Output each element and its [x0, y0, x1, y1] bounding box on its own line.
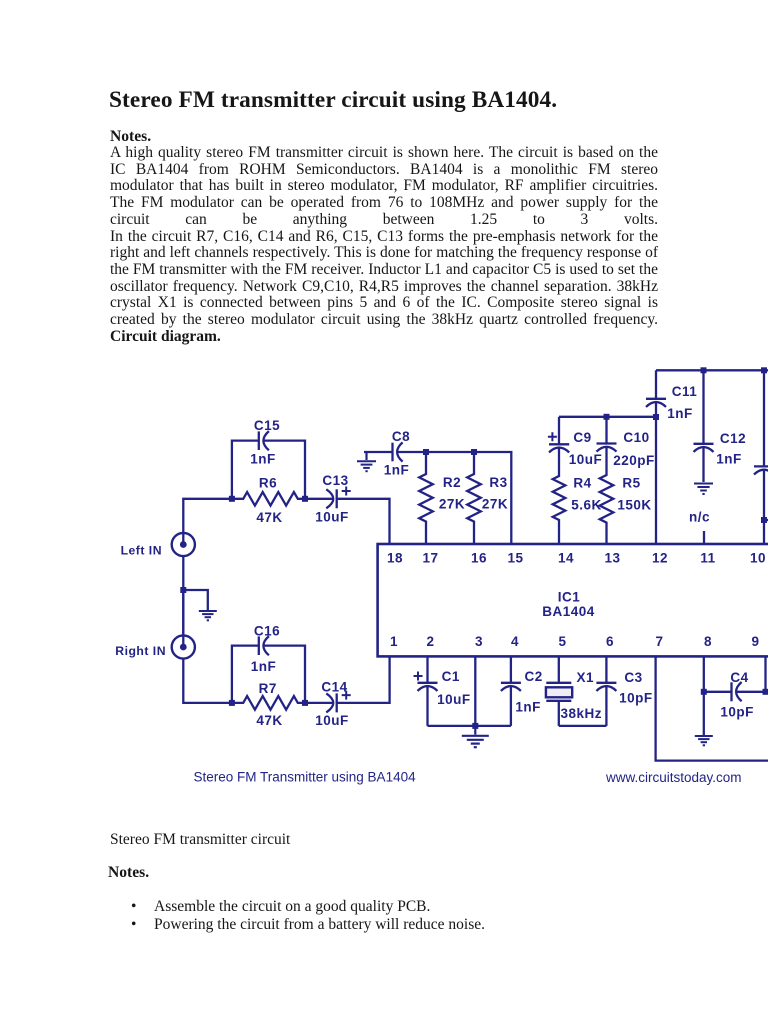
wire Left IN top to R6 node	[183, 499, 232, 545]
svg-text:27K: 27K	[439, 496, 465, 511]
svg-text:IC1: IC1	[558, 589, 581, 604]
svg-text:1nF: 1nF	[251, 659, 277, 674]
svg-text:1nF: 1nF	[515, 700, 541, 715]
svg-text:15: 15	[507, 551, 523, 566]
wire pin 9 down	[764, 656, 766, 691]
wire C4 to pin 9	[737, 691, 766, 693]
svg-text:C11: C11	[672, 384, 698, 399]
wire top rail	[656, 369, 768, 371]
wire pin 8 down	[703, 656, 705, 735]
capacitor C right edge	[754, 370, 768, 544]
ground below C12	[694, 484, 713, 495]
svg-text:Left IN: Left IN	[121, 544, 162, 558]
svg-text:R6: R6	[259, 475, 277, 490]
resistor R6	[232, 492, 305, 506]
node R7 right	[302, 700, 308, 706]
svg-text:X1: X1	[576, 670, 594, 685]
svg-text:C1: C1	[442, 669, 460, 684]
svg-text:220pF: 220pF	[613, 453, 655, 468]
svg-text:8: 8	[704, 634, 712, 649]
wire pin 11 stub	[703, 531, 705, 544]
svg-text:C3: C3	[624, 670, 642, 685]
svg-text:1nF: 1nF	[716, 451, 742, 466]
svg-text:16: 16	[471, 551, 487, 566]
bottom caption text	[110, 831, 290, 849]
svg-text:47K: 47K	[256, 713, 282, 728]
wire pin 3 to ground bus	[474, 656, 476, 726]
svg-text:5: 5	[558, 634, 566, 649]
resistor R2	[419, 452, 433, 544]
svg-text:R5: R5	[622, 475, 640, 490]
svg-text:10uF: 10uF	[315, 713, 349, 728]
svg-text:6: 6	[606, 634, 614, 649]
wire X1 to C3 bottom	[559, 725, 607, 727]
wire ground to C8	[364, 451, 393, 453]
resistor R3	[467, 452, 481, 544]
node top rail right	[761, 367, 767, 373]
svg-text:www.circuitstoday.com: www.circuitstoday.com	[605, 770, 742, 785]
pin numbers top row 18-10	[387, 551, 766, 566]
svg-text:BA1404: BA1404	[542, 604, 595, 619]
ground below pin 8	[695, 736, 713, 745]
wire rail to C11	[655, 370, 657, 399]
node R6 right	[302, 496, 308, 502]
capacitor C13	[326, 487, 350, 509]
svg-text:27K: 27K	[482, 496, 508, 511]
svg-text:Right IN: Right IN	[115, 644, 166, 658]
capacitor C4	[732, 682, 742, 701]
wire C16 loop	[232, 646, 305, 703]
wire C11 to pin 12	[655, 403, 657, 545]
capacitor C11	[646, 399, 666, 407]
title	[109, 87, 557, 114]
svg-text:1: 1	[390, 634, 398, 649]
resistor R5	[600, 447, 614, 544]
svg-text:C9: C9	[573, 430, 591, 445]
node R7 left	[229, 700, 235, 706]
wire pin 8 to C4	[704, 691, 732, 693]
node C10 top	[604, 414, 610, 420]
svg-text:3: 3	[475, 634, 483, 649]
node R3 top	[471, 449, 477, 455]
svg-text:14: 14	[558, 551, 574, 566]
ground at C8	[357, 452, 376, 471]
capacitor C2	[501, 656, 521, 726]
paragraph	[110, 145, 658, 345]
svg-text:5.6K: 5.6K	[571, 497, 602, 512]
svg-text:2: 2	[426, 634, 434, 649]
svg-text:C13: C13	[322, 473, 348, 488]
svg-text:C12: C12	[720, 431, 746, 446]
svg-text:1nF: 1nF	[384, 462, 410, 477]
wire Right IN down to R7	[183, 658, 232, 703]
svg-text:10uF: 10uF	[437, 692, 471, 707]
svg-text:10pF: 10pF	[619, 691, 653, 706]
svg-text:C16: C16	[254, 623, 280, 638]
svg-text:R4: R4	[573, 475, 591, 490]
svg-text:10uF: 10uF	[315, 510, 349, 525]
svg-text:R2: R2	[443, 475, 461, 490]
IC U1 BA1404 body	[378, 544, 768, 656]
svg-text:47K: 47K	[256, 510, 282, 525]
svg-text:n/c: n/c	[689, 510, 710, 525]
node top rail C12	[701, 367, 707, 373]
wire C14 to pin 1	[337, 656, 390, 703]
svg-text:1nF: 1nF	[250, 452, 276, 467]
ground below pin 3	[462, 726, 489, 747]
wire ground bus	[428, 725, 511, 727]
wire separation bus	[559, 416, 656, 418]
svg-text:R3: R3	[489, 475, 507, 490]
svg-text:7: 7	[655, 634, 663, 649]
node pin 9	[763, 689, 768, 695]
pin numbers bottom row 1-9	[390, 634, 760, 649]
svg-text:C4: C4	[730, 670, 748, 685]
svg-text:C14: C14	[321, 679, 347, 694]
connector J1 Left IN	[172, 533, 195, 556]
svg-text:C15: C15	[254, 418, 280, 433]
node R2 top	[423, 449, 429, 455]
node C11 bottom	[653, 414, 659, 420]
capacitor C9	[548, 417, 569, 453]
svg-text:C2: C2	[524, 669, 542, 684]
wire right edge stub	[764, 519, 768, 521]
wire C15 loop	[232, 441, 305, 499]
svg-text:10pF: 10pF	[720, 705, 754, 720]
node junction left bus	[180, 587, 186, 593]
crystal X1	[546, 656, 572, 726]
capacitor C14	[326, 691, 350, 713]
svg-text:4: 4	[511, 634, 519, 649]
wire C13 to pin 18	[337, 499, 390, 544]
wire ground branch	[183, 590, 208, 610]
node right edge	[761, 517, 767, 523]
capacitor C1	[414, 656, 438, 726]
svg-text:17: 17	[422, 551, 438, 566]
wire R6 to C13	[305, 498, 333, 500]
wire R7 to C14	[305, 702, 333, 704]
svg-text:150K: 150K	[617, 497, 651, 512]
ground near Left IN	[199, 611, 217, 620]
svg-text:R7: R7	[259, 681, 277, 696]
svg-text:10uF: 10uF	[569, 452, 603, 467]
wire pin 7 bottom rail	[656, 656, 768, 760]
svg-text:C8: C8	[392, 429, 410, 444]
node pin 8	[701, 689, 707, 695]
capacitor C12	[694, 370, 714, 482]
svg-text:Stereo FM Transmitter using BA: Stereo FM Transmitter using BA1404	[194, 770, 417, 785]
svg-text:13: 13	[604, 551, 620, 566]
svg-text:C10: C10	[623, 430, 649, 445]
resistor R4	[553, 448, 566, 544]
notes heading	[110, 128, 151, 146]
svg-text:11: 11	[700, 551, 715, 566]
svg-text:12: 12	[652, 551, 668, 566]
capacitor C16	[259, 636, 269, 655]
capacitor C10	[597, 417, 617, 452]
svg-text:10: 10	[750, 551, 766, 566]
node ground bus	[472, 723, 478, 729]
capacitor C15	[259, 431, 269, 450]
svg-text:18: 18	[387, 551, 403, 566]
connector J2 Right IN	[172, 590, 195, 659]
capacitor C8	[393, 442, 403, 461]
resistor R7	[232, 696, 305, 710]
svg-text:9: 9	[751, 634, 759, 649]
node R6 left	[229, 496, 235, 502]
svg-text:38kHz: 38kHz	[561, 706, 603, 721]
svg-text:1nF: 1nF	[667, 406, 693, 421]
capacitor C3	[596, 656, 616, 726]
wire Left IN to Right IN	[182, 556, 184, 636]
wire C8 to pin 15	[398, 452, 512, 544]
